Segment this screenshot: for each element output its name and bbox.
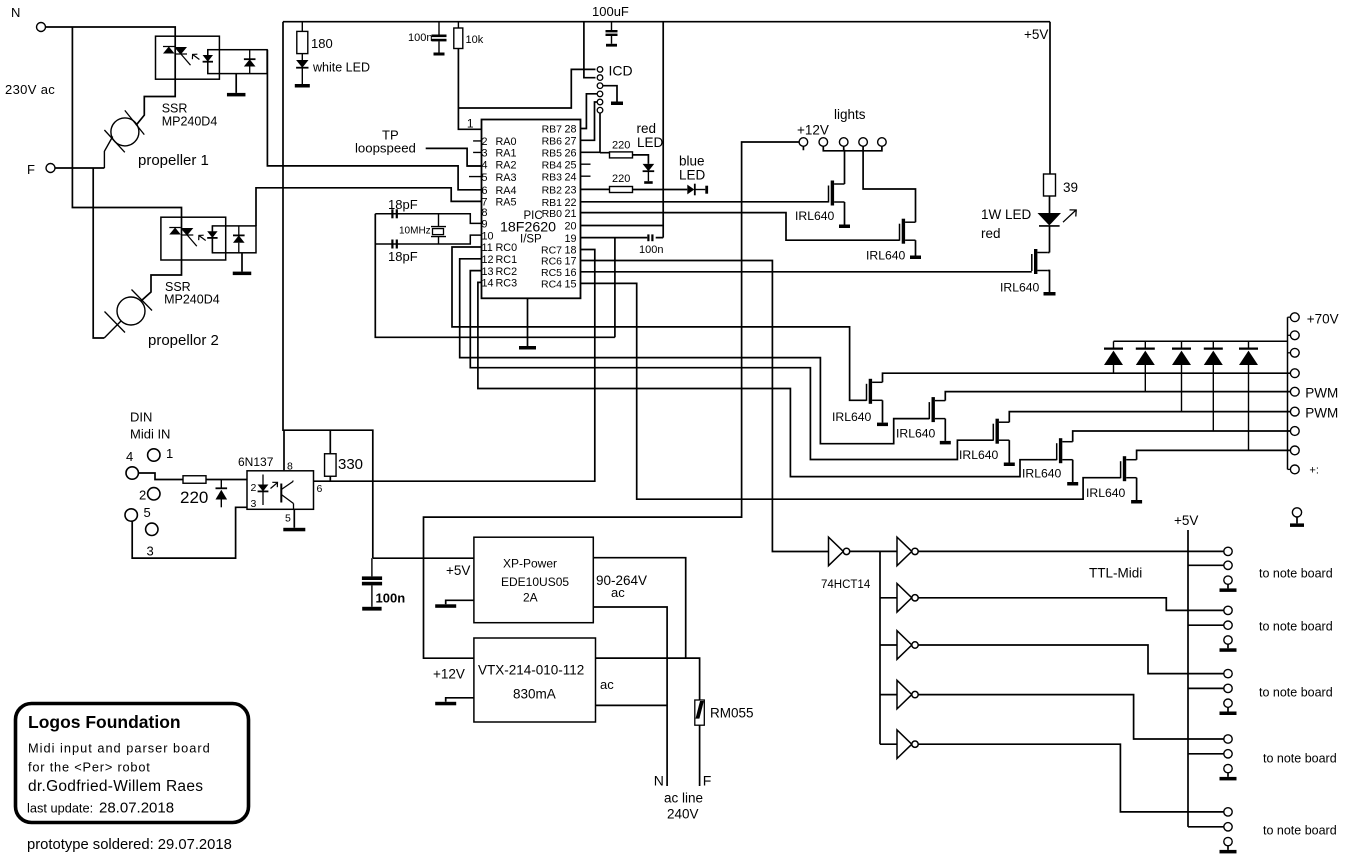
capacitor C 18pF top bbox=[388, 197, 418, 218]
gate inverter U2E 74HCT14 bbox=[897, 680, 918, 709]
svg-text:+:: +: bbox=[1309, 465, 1318, 477]
svg-text:propellor 2: propellor 2 bbox=[148, 332, 219, 349]
svg-text:loopspeed: loopspeed bbox=[355, 141, 416, 156]
svg-text:19: 19 bbox=[564, 233, 576, 245]
wire VTX ground stem bbox=[446, 698, 474, 702]
svg-text:10MHz: 10MHz bbox=[399, 226, 431, 237]
svg-text:RA2: RA2 bbox=[496, 160, 517, 172]
optocoupler SSR1 MP240D4 triac box bbox=[156, 36, 220, 79]
LED SSR2 input bbox=[207, 226, 217, 253]
resistor 330 bbox=[325, 454, 337, 477]
wire inverter F to note5 bbox=[918, 744, 1224, 812]
wire RC4 pin15 to cascade mosfet5 gate bbox=[581, 283, 1121, 499]
wire cascade mosfet3 source bbox=[1008, 440, 1010, 462]
svg-text:15: 15 bbox=[564, 279, 576, 291]
svg-text:RB5: RB5 bbox=[542, 148, 563, 160]
wire XP ground stem bbox=[446, 600, 474, 604]
svg-text:PWM: PWM bbox=[1305, 386, 1338, 401]
svg-text:100n: 100n bbox=[639, 244, 663, 256]
wire +5V to 39 resistor bbox=[1049, 22, 1051, 174]
ground cascade mosfet4 bbox=[1067, 482, 1078, 486]
wire inverter D to note3 bbox=[918, 645, 1224, 674]
wire VTX ac1 bbox=[596, 658, 700, 700]
wire ICD pin5 to RB6 bbox=[581, 102, 598, 140]
arrow SSR1 opto bbox=[192, 54, 199, 59]
LED white bbox=[296, 54, 370, 84]
transistor lights mosfet1 IRL640 bbox=[829, 181, 845, 206]
ground VTX input bbox=[435, 702, 456, 706]
wire RC0 pin11 to cascade mosfet1 gate bbox=[452, 247, 867, 400]
diode SSR2 output bbox=[233, 226, 245, 253]
connector ICD bbox=[597, 63, 632, 113]
ground cascade mosfet1 bbox=[877, 423, 888, 427]
wire RB2 to 220 blue bbox=[581, 188, 610, 190]
wire +5V to note board 2 bbox=[1188, 624, 1224, 626]
svg-text:5: 5 bbox=[285, 513, 291, 525]
PSU VTX box bbox=[474, 638, 596, 722]
connector note board 4 ground pin bbox=[1224, 764, 1232, 772]
wire XP ac2 bbox=[593, 607, 667, 786]
wire cascade mosfet1 drain to bus bbox=[883, 373, 1291, 382]
capacitor 100n top bbox=[408, 22, 447, 56]
svg-text:RC5: RC5 bbox=[541, 267, 562, 279]
wire loopspeed to RA2 pin4 bbox=[426, 148, 482, 166]
svg-text:23: 23 bbox=[564, 185, 576, 197]
svg-text:IRL640: IRL640 bbox=[1086, 486, 1126, 500]
wire inverter E to note4 bbox=[918, 695, 1224, 739]
transistor cascade mosfet2 IRL640 bbox=[929, 397, 945, 422]
wire ICD pin4 to RB7 bbox=[581, 94, 598, 129]
svg-text:+70V: +70V bbox=[1307, 312, 1339, 327]
svg-text:+5V: +5V bbox=[1174, 513, 1198, 528]
svg-text:1W LED: 1W LED bbox=[981, 207, 1032, 222]
optocoupler SSR1 photo box bbox=[208, 50, 267, 74]
wire cascade mosfet2 drain to bus bbox=[945, 392, 1290, 401]
svg-text:830mA: 830mA bbox=[513, 687, 556, 702]
wire RB1 pin22 to lights mosfet1 gate bbox=[581, 201, 829, 203]
svg-text:F: F bbox=[703, 773, 712, 789]
wire 1W mosfet source bbox=[1048, 271, 1050, 293]
wire crystal caps common bbox=[375, 214, 615, 337]
resistor 220 blue LED bbox=[610, 173, 633, 193]
wire N branch down to SSR2 bbox=[72, 27, 181, 217]
wire inverter 4 input bbox=[880, 644, 897, 646]
optocoupler SSR2 photo box bbox=[212, 226, 256, 253]
svg-text:3: 3 bbox=[147, 544, 154, 559]
LED red bbox=[637, 121, 664, 184]
wire cascade mosfet1 source bbox=[882, 400, 884, 422]
svg-text:28.07.2018: 28.07.2018 bbox=[99, 800, 174, 817]
gate inverter U2F 74HCT14 bbox=[897, 730, 918, 759]
connector note board 2 +5V pin bbox=[1224, 621, 1232, 629]
wire RC2 pin13 to cascade mosfet3 gate bbox=[470, 271, 993, 460]
svg-text:to note board: to note board bbox=[1263, 824, 1337, 838]
wire pin19 Vss to crystal ground bbox=[614, 238, 616, 338]
svg-text:180: 180 bbox=[311, 36, 333, 51]
IC U1 PIC 18F2620 body bbox=[482, 120, 581, 299]
svg-text:F: F bbox=[27, 162, 35, 177]
svg-text:100n: 100n bbox=[408, 32, 432, 44]
svg-text:ac line: ac line bbox=[664, 791, 703, 806]
diode flyback D4 bbox=[1204, 341, 1223, 431]
svg-text:+12V: +12V bbox=[797, 123, 829, 138]
connector note board 5 +5V pin bbox=[1224, 823, 1232, 831]
svg-text:220: 220 bbox=[180, 488, 208, 507]
svg-text:XP-Power: XP-Power bbox=[503, 557, 557, 571]
gate inverter U2A 74HCT14 bbox=[829, 537, 850, 566]
triac SSR2 bbox=[169, 228, 197, 247]
ground note board 2 bbox=[1220, 644, 1237, 652]
svg-text:last update:: last update: bbox=[27, 801, 93, 816]
wire OSC1 pin9 line bbox=[375, 214, 481, 224]
wire RC5 pin16 to 1W LED mosfet gate bbox=[581, 271, 1032, 273]
triac SSR1 bbox=[163, 47, 191, 66]
svg-text:RB2: RB2 bbox=[542, 185, 563, 197]
svg-text:3: 3 bbox=[251, 498, 257, 510]
wire inverter 3 input bbox=[880, 597, 897, 599]
capacitor 100n power bbox=[362, 558, 405, 610]
ground note board 3 bbox=[1220, 707, 1237, 715]
svg-text:Midi input and parser board: Midi input and parser board bbox=[28, 741, 211, 756]
svg-text:6: 6 bbox=[482, 185, 488, 197]
ground note board 5 bbox=[1220, 846, 1237, 854]
wire lights mosfet1 drain bbox=[844, 150, 846, 184]
transistor 1W LED mosfet IRL640 bbox=[1032, 249, 1048, 274]
svg-text:2: 2 bbox=[251, 482, 257, 494]
wire inverter 2 input bbox=[880, 550, 897, 552]
svg-text:RC1: RC1 bbox=[496, 254, 518, 266]
svg-text:5: 5 bbox=[482, 172, 488, 184]
svg-text:IRL640: IRL640 bbox=[832, 410, 872, 424]
svg-text:lights: lights bbox=[834, 107, 866, 122]
svg-text:IRL640: IRL640 bbox=[1022, 467, 1062, 481]
connector spare pin bbox=[1292, 508, 1301, 517]
ground SSR2 bbox=[233, 253, 252, 275]
wire lights mosfet1 source bbox=[844, 202, 846, 225]
connector header +70V PWM column bbox=[1288, 313, 1300, 474]
crystal 10MHz bbox=[399, 214, 446, 244]
wire lights bus bbox=[803, 146, 882, 151]
thermistor RM055 bbox=[695, 700, 754, 725]
svg-text:10: 10 bbox=[482, 230, 494, 242]
svg-text:2: 2 bbox=[139, 488, 146, 503]
wire cascade mosfet5 drain to bus bbox=[1137, 450, 1291, 459]
ground cascade mosfet2 bbox=[940, 441, 951, 445]
svg-text:16: 16 bbox=[564, 267, 576, 279]
wire SSR1 triac bottom to motor bbox=[136, 79, 175, 125]
wire +5V to note board 5 bbox=[1188, 826, 1224, 828]
wire +5V to note board 1 bbox=[1188, 564, 1224, 566]
svg-text:11: 11 bbox=[482, 242, 493, 254]
wire RC3 pin14 to cascade mosfet4 gate bbox=[478, 282, 1057, 476]
node F terminal bbox=[27, 162, 55, 177]
wire 6N137 pin3 loop bbox=[132, 507, 247, 558]
wire 330 top to +5V bbox=[329, 430, 331, 454]
svg-text:RB3: RB3 bbox=[542, 171, 563, 183]
svg-text:MP240D4: MP240D4 bbox=[162, 114, 218, 128]
svg-text:LED: LED bbox=[637, 135, 664, 150]
svg-text:220: 220 bbox=[612, 173, 630, 185]
gate inverter U2D 74HCT14 bbox=[897, 631, 918, 660]
svg-text:4: 4 bbox=[482, 160, 488, 172]
ground note board 4 bbox=[1220, 773, 1237, 781]
resistor 180 bbox=[297, 22, 333, 54]
connector note board 5 signal pin bbox=[1224, 808, 1232, 816]
wire cascade mosfet3 drain to bus bbox=[1009, 412, 1290, 423]
wire lights mosfet2 drain bbox=[863, 150, 915, 222]
wire RM055 to F bbox=[699, 725, 701, 786]
ground cascade mosfet3 bbox=[1004, 463, 1015, 467]
ground lights mosfet2 bbox=[910, 256, 921, 260]
svg-text:RM055: RM055 bbox=[710, 706, 754, 721]
svg-text:for the <Per> robot: for the <Per> robot bbox=[28, 760, 151, 775]
svg-text:6N137: 6N137 bbox=[238, 455, 274, 469]
wire 220 to blue LED bbox=[633, 189, 688, 191]
connector note board 2 ground pin bbox=[1224, 636, 1232, 644]
gate inverter U2B 74HCT14 bbox=[897, 537, 918, 566]
svg-text:5: 5 bbox=[144, 505, 151, 520]
wire lights mosfet2 source bbox=[915, 240, 917, 255]
svg-text:240V: 240V bbox=[667, 807, 699, 822]
transistor cascade mosfet5 IRL640 bbox=[1121, 456, 1137, 481]
resistor 220 red LED bbox=[610, 140, 633, 158]
svg-text:RC6: RC6 bbox=[541, 256, 562, 268]
svg-text:4: 4 bbox=[126, 449, 133, 464]
ground 1W mosfet bbox=[1044, 292, 1056, 296]
wire 1W LED to mosfet drain bbox=[1049, 226, 1051, 253]
LED 1W red bbox=[981, 207, 1076, 241]
wire N to SSR1 triac bbox=[46, 27, 176, 36]
labels PIC left pins bbox=[482, 136, 518, 290]
capacitor C 18pF bottom bbox=[388, 240, 418, 265]
svg-text:N: N bbox=[11, 5, 20, 20]
wire VTX ac2 bbox=[596, 704, 668, 706]
IC 6N137 body bbox=[247, 471, 314, 510]
svg-text:Midi IN: Midi IN bbox=[130, 427, 170, 442]
PSU XP-Power box bbox=[474, 537, 593, 623]
svg-text:IRL640: IRL640 bbox=[896, 427, 936, 441]
diode flyback D2 bbox=[1136, 341, 1155, 391]
svg-text:blue: blue bbox=[679, 154, 705, 169]
svg-text:100n: 100n bbox=[376, 591, 406, 606]
ground PIC bbox=[519, 298, 536, 349]
resistor 220 midi bbox=[183, 476, 206, 484]
capacitor 100uF bbox=[592, 4, 629, 47]
svg-text:RA1: RA1 bbox=[496, 148, 517, 160]
wire +5V to note board 3 bbox=[1188, 687, 1224, 689]
svg-text:dr.Godfried-Willem Raes: dr.Godfried-Willem Raes bbox=[28, 778, 203, 795]
ground lights mosfet1 bbox=[839, 225, 850, 229]
pin stubs PIC right bbox=[581, 164, 591, 176]
wire 1W mosfet drain stub up bbox=[1048, 252, 1050, 254]
wire +5V top rail bbox=[283, 21, 1050, 23]
motor propeller 1 bbox=[104, 110, 208, 169]
svg-text:RC4: RC4 bbox=[541, 279, 562, 291]
wire inverter C to note2 bbox=[918, 598, 1224, 611]
wire SSR2 triac through bbox=[181, 217, 183, 260]
svg-text:RC0: RC0 bbox=[496, 242, 518, 254]
svg-text:+5V: +5V bbox=[1024, 27, 1048, 42]
svg-text:propeller 1: propeller 1 bbox=[138, 152, 209, 169]
connector note board 2 signal pin bbox=[1224, 606, 1232, 614]
wire DIN to 220 bbox=[138, 473, 183, 480]
node N terminal bbox=[11, 5, 46, 32]
resistor 39 bbox=[1044, 174, 1079, 196]
LED 6N137 input bbox=[258, 475, 278, 506]
wire ICD pin3 to ground bbox=[603, 86, 617, 102]
svg-text:330: 330 bbox=[338, 456, 363, 473]
svg-text:DIN: DIN bbox=[130, 410, 152, 425]
wire inverter B to note1 bbox=[918, 550, 1224, 552]
svg-text:Logos Foundation: Logos Foundation bbox=[28, 712, 181, 732]
transistor cascade mosfet4 IRL640 bbox=[1057, 438, 1073, 463]
svg-text:14: 14 bbox=[482, 278, 494, 290]
capacitor 100n pin19 bbox=[639, 234, 663, 256]
svg-text:RC3: RC3 bbox=[496, 278, 518, 290]
connector note board 4 +5V pin bbox=[1224, 750, 1232, 758]
wire SSR2 output to PIC RA5 pin7 bbox=[256, 188, 482, 226]
svg-text:18pF: 18pF bbox=[388, 197, 418, 212]
wire OSC2 pin10 line bbox=[375, 235, 481, 244]
svg-text:1: 1 bbox=[467, 117, 474, 131]
svg-text:ac: ac bbox=[611, 585, 625, 600]
svg-text:18pF: 18pF bbox=[388, 249, 418, 264]
svg-text:1: 1 bbox=[166, 446, 173, 461]
wire cascade mosfet4 source bbox=[1072, 460, 1074, 482]
svg-text:2A: 2A bbox=[523, 591, 538, 605]
svg-text:white LED: white LED bbox=[312, 61, 370, 75]
ground ICD bbox=[611, 102, 623, 106]
connector note board 3 ground pin bbox=[1224, 699, 1232, 707]
ground XP input bbox=[435, 604, 456, 608]
svg-text:20: 20 bbox=[564, 221, 576, 233]
ground white LED bbox=[295, 84, 310, 88]
svg-text:LED: LED bbox=[679, 168, 706, 183]
connector note board 5 ground pin bbox=[1224, 837, 1232, 845]
ground SSR1 bbox=[227, 74, 246, 97]
svg-text:N: N bbox=[654, 773, 664, 789]
wire 220 to red LED bbox=[633, 155, 649, 164]
wire RB0 pin21 to lights mosfet2 gate bbox=[581, 213, 900, 241]
label last update bbox=[27, 800, 174, 817]
svg-text:74HCT14: 74HCT14 bbox=[821, 579, 871, 591]
labels PIC right pins bbox=[541, 124, 577, 291]
svg-text:25: 25 bbox=[564, 159, 576, 171]
wire RC6 pin17 to 74HCT14 input bbox=[581, 261, 829, 552]
svg-text:to note board: to note board bbox=[1259, 686, 1333, 700]
wire pin19 100n bbox=[581, 237, 664, 239]
wire 330 bottom to pin6 wire bbox=[329, 476, 331, 481]
diode bar +70V top bbox=[1114, 340, 1288, 342]
svg-text:to note board: to note board bbox=[1259, 567, 1333, 581]
svg-text:13: 13 bbox=[482, 266, 494, 278]
resistor 10k bbox=[454, 22, 484, 49]
svg-text:PWM: PWM bbox=[1305, 406, 1338, 421]
ground cascade mosfet5 bbox=[1131, 500, 1142, 504]
wire 6N137 pin8 drop bbox=[283, 430, 285, 471]
svg-text:to note board: to note board bbox=[1263, 752, 1337, 766]
svg-text:RA3: RA3 bbox=[496, 172, 517, 184]
svg-text:ICD: ICD bbox=[609, 63, 633, 79]
svg-text:12: 12 bbox=[482, 254, 494, 266]
ground spare pin bbox=[1290, 517, 1304, 527]
connector note board 1 signal pin bbox=[1224, 547, 1232, 555]
svg-text:100uF: 100uF bbox=[592, 4, 629, 19]
wire inverter 6 input bbox=[880, 743, 897, 745]
wire RB5 to 220 bbox=[581, 151, 610, 153]
wire +5V to note board 4 bbox=[1188, 753, 1224, 755]
wire 10k to MCLR pin1 and ICD1 bbox=[458, 22, 595, 130]
ground note board 1 bbox=[1220, 584, 1237, 592]
svg-text:RB4: RB4 bbox=[542, 159, 563, 171]
svg-text:IRL640: IRL640 bbox=[866, 249, 906, 263]
title box Logos Foundation bbox=[16, 704, 249, 823]
LED SSR1 input bbox=[203, 50, 213, 74]
pin stubs PIC left bbox=[467, 141, 482, 177]
transistor cascade mosfet3 IRL640 bbox=[993, 419, 1009, 444]
wire +5V TTL bus bbox=[1187, 530, 1189, 827]
wire F branch to propeller 2 bbox=[93, 168, 104, 338]
diode flyback D5 bbox=[1239, 341, 1258, 450]
svg-text:to note board: to note board bbox=[1259, 620, 1333, 634]
svg-text:220: 220 bbox=[612, 140, 630, 152]
svg-text:10k: 10k bbox=[466, 34, 484, 46]
svg-text:8: 8 bbox=[482, 207, 488, 219]
gate inverter U2C 74HCT14 bbox=[897, 584, 918, 613]
wire inverter 5 input bbox=[880, 694, 897, 696]
svg-text:24: 24 bbox=[564, 171, 576, 183]
wire SSR1 triac through bbox=[174, 36, 176, 79]
svg-text:EDE10US05: EDE10US05 bbox=[501, 575, 569, 589]
wire 39 to 1W LED bbox=[1049, 196, 1051, 213]
svg-text:6: 6 bbox=[317, 483, 323, 495]
svg-text:IRL640: IRL640 bbox=[1000, 281, 1040, 295]
wire inverter bus bbox=[850, 551, 880, 744]
wire cascade mosfet5 source bbox=[1136, 478, 1138, 500]
svg-text:RA5: RA5 bbox=[496, 197, 517, 209]
diode midi protection bbox=[216, 480, 228, 508]
svg-text:+5V: +5V bbox=[446, 563, 470, 578]
transistor 6N137 output bbox=[281, 481, 293, 510]
svg-text:RA0: RA0 bbox=[496, 136, 517, 148]
wire +5V left drop to 6N137 bbox=[283, 22, 373, 559]
svg-text:230V ac: 230V ac bbox=[5, 82, 55, 97]
svg-text:26: 26 bbox=[564, 148, 576, 160]
svg-text:RB0: RB0 bbox=[542, 208, 563, 220]
svg-text:+12V: +12V bbox=[433, 667, 465, 682]
connector note board 3 signal pin bbox=[1224, 669, 1232, 677]
wire cascade mosfet4 drain to bus bbox=[1073, 431, 1291, 442]
svg-text:RA4: RA4 bbox=[496, 185, 517, 197]
svg-text:RB7: RB7 bbox=[542, 124, 563, 136]
wire cascade mosfet2 source bbox=[944, 419, 946, 441]
svg-text:27: 27 bbox=[564, 136, 576, 148]
svg-text:I/SP: I/SP bbox=[520, 234, 542, 246]
svg-text:prototype soldered: 29.07.2018: prototype soldered: 29.07.2018 bbox=[27, 837, 232, 853]
wire +12V feed to lights bbox=[424, 142, 800, 658]
svg-text:2: 2 bbox=[482, 136, 488, 148]
svg-text:8: 8 bbox=[287, 461, 293, 473]
ground 6N137 pin5 bbox=[283, 509, 305, 531]
svg-text:3: 3 bbox=[482, 148, 488, 160]
svg-text:TTL-Midi: TTL-Midi bbox=[1089, 566, 1142, 581]
svg-text:red: red bbox=[637, 121, 657, 136]
svg-text:9: 9 bbox=[482, 219, 488, 231]
optocoupler SSR2 MP240D4 triac box bbox=[161, 217, 226, 260]
svg-text:RC2: RC2 bbox=[496, 266, 518, 278]
svg-text:red: red bbox=[981, 226, 1001, 241]
connector note board 3 +5V pin bbox=[1224, 684, 1232, 692]
